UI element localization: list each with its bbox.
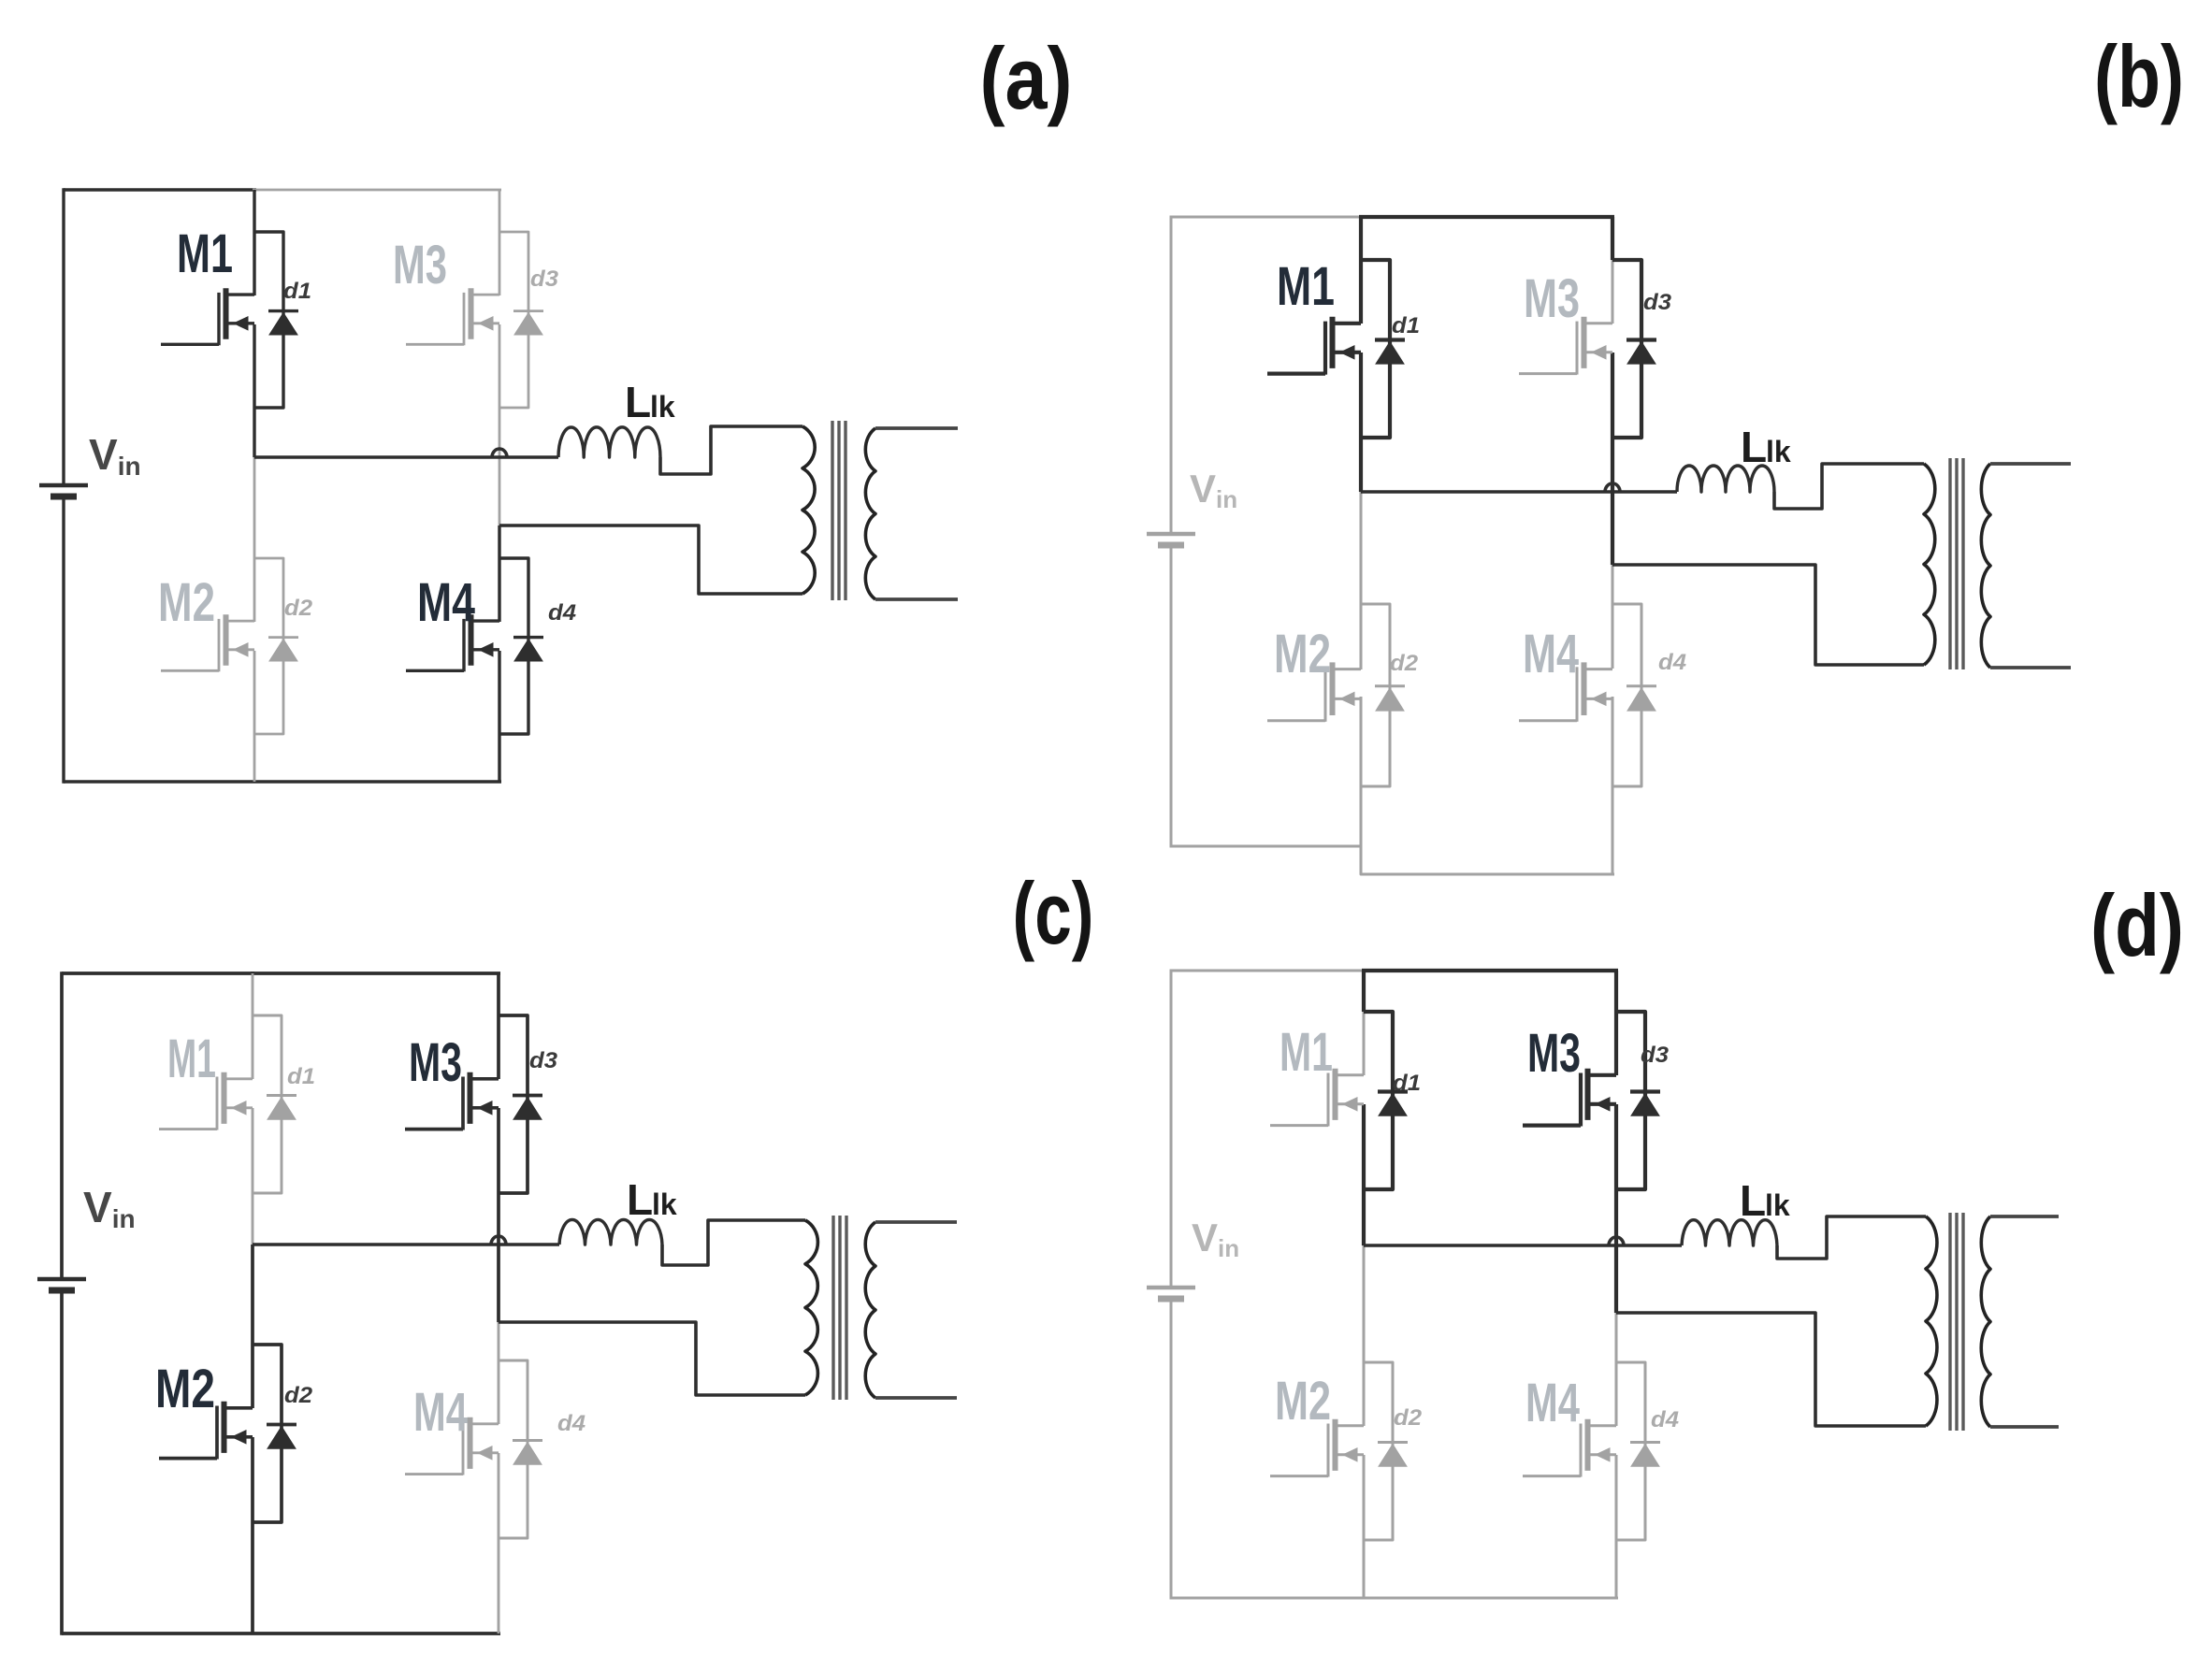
wire: bottom rail (c): [62, 1632, 500, 1635]
label d1 (c): [287, 1064, 315, 1089]
transistor M4 N-MOSFET (c): [405, 1418, 499, 1475]
label Llk (b): [1741, 423, 1791, 471]
wire: left rail / Vin net (d): [1170, 970, 1173, 1600]
diode d2 body diode of M2 (a): [268, 638, 298, 661]
diode d4 body diode of M4 (a): [513, 638, 543, 661]
label M1 (b): [1277, 256, 1335, 317]
label d3 (c): [529, 1048, 558, 1073]
wire: Llk to transformer primary top (stepped) (b): [1774, 464, 1924, 509]
wire: node B to transformer primary bottom (stepped) (a): [499, 525, 802, 594]
svg-text:d2: d2: [284, 596, 313, 621]
wire: M1 drain/source ties and diode branch (c): [253, 1015, 282, 1193]
svg-text:d2: d2: [1390, 651, 1419, 676]
wire: bridge leg B vertical (a): [499, 190, 501, 782]
svg-text:d2: d2: [284, 1383, 313, 1408]
label Vin (c): [83, 1183, 136, 1233]
diode d1 body diode of M1 (d): [1378, 1092, 1408, 1116]
label d2 (b): [1390, 651, 1419, 676]
transistor M3 N-MOSFET (d): [1523, 1069, 1616, 1127]
label d4 (a): [548, 600, 576, 626]
label d3 (a): [530, 266, 559, 292]
inductor Llk leakage inductance (d): [1682, 1220, 1777, 1245]
transistor M4 N-MOSFET (d): [1523, 1419, 1616, 1477]
wire: M1 drain/source ties and diode branch (d): [1364, 1012, 1393, 1189]
wire: top rail (d): [1171, 970, 1618, 972]
label M3 (d): [1527, 1023, 1581, 1084]
svg-text:(b): (b): [2094, 27, 2184, 125]
wire: left rail / Vin net (b): [1170, 216, 1173, 848]
wire: bridge leg A vertical (d): [1362, 971, 1366, 1598]
label M3 (b): [1524, 268, 1580, 329]
transistor M2 N-MOSFET (c): [159, 1402, 253, 1460]
svg-text:M3: M3: [393, 235, 447, 295]
svg-text:M1: M1: [167, 1029, 216, 1089]
transformer secondary winding (b): [1981, 464, 1990, 668]
label d2 (d): [1394, 1405, 1423, 1431]
diode d3 body diode of M3 (b): [1626, 340, 1656, 365]
svg-text:(c): (c): [1013, 864, 1094, 962]
wire: secondary top lead (d): [1990, 1215, 2059, 1218]
inductor Llk leakage inductance (b): [1677, 466, 1774, 492]
label Llk (d): [1740, 1176, 1790, 1225]
transistor M1 N-MOSFET (b): [1267, 317, 1361, 375]
wire: M1 drain/source ties and diode branch (a): [254, 232, 283, 408]
wire: bridge leg B vertical (c): [497, 973, 500, 1633]
svg-text:d3: d3: [1641, 1043, 1670, 1068]
battery Vin source (b): [1147, 534, 1195, 545]
label M2 (c): [155, 1359, 215, 1419]
label M1 (a): [177, 223, 233, 284]
label d3 (d): [1641, 1043, 1670, 1068]
label d4 (d): [1651, 1407, 1679, 1432]
wire: bottom rail (a): [64, 780, 501, 783]
label (a) sub-figure letter: [980, 29, 1073, 127]
diode d2 body diode of M2 (b): [1375, 686, 1405, 711]
transformer core (b): [1950, 458, 1963, 669]
wire: Llk to transformer primary top (stepped) (d): [1777, 1216, 1926, 1259]
wire: secondary bottom lead (c): [875, 1396, 957, 1400]
transistor M4 N-MOSFET (b): [1519, 662, 1612, 721]
svg-text:d4: d4: [1658, 650, 1686, 675]
battery Vin source (a): [39, 485, 88, 496]
diode d1 body diode of M1 (c): [267, 1096, 296, 1120]
label M4 (a): [417, 572, 475, 633]
svg-text:M4: M4: [417, 572, 475, 633]
battery Vin source (c): [37, 1279, 86, 1290]
label d3 (b): [1643, 290, 1672, 315]
wire: left rail / Vin net (a): [62, 188, 65, 783]
transformer primary winding (d): [1926, 1216, 1937, 1426]
svg-text:M4: M4: [413, 1382, 468, 1443]
label M1 (c): [167, 1029, 216, 1089]
label M2 (a): [158, 572, 215, 633]
diode d4 body diode of M4 (b): [1626, 686, 1656, 711]
wire: bottom rail (d): [1171, 1597, 1618, 1600]
svg-text:(d): (d): [2090, 876, 2184, 974]
label M2 (b): [1274, 624, 1331, 684]
label M3 (a): [393, 235, 447, 295]
svg-text:d2: d2: [1394, 1405, 1423, 1431]
svg-text:d3: d3: [1643, 290, 1672, 315]
wire: M4 drain/source ties and diode branch (d): [1616, 1362, 1645, 1540]
wire: M2 drain/source ties and diode branch (c): [253, 1345, 282, 1522]
wire: node A to Llk with crossover hop (b): [1361, 483, 1677, 492]
svg-text:L: L: [1740, 1176, 1766, 1225]
transformer primary winding (c): [805, 1220, 817, 1395]
svg-text:L: L: [1741, 423, 1767, 471]
svg-text:M1: M1: [1277, 256, 1335, 317]
wire: bridge leg A vertical (c): [252, 973, 254, 1633]
inductor Llk leakage inductance (c): [559, 1219, 662, 1245]
svg-text:M2: M2: [155, 1359, 215, 1419]
transistor M1 N-MOSFET (c): [159, 1072, 253, 1130]
wire: top rail (a): [64, 188, 501, 191]
transistor M3 N-MOSFET (c): [405, 1072, 499, 1130]
wire: Llk to transformer primary top (stepped) (c): [662, 1220, 805, 1265]
wire: M3 drain/source ties and diode branch (b): [1612, 260, 1641, 438]
transformer secondary winding (a): [865, 428, 875, 599]
svg-text:d4: d4: [557, 1411, 586, 1436]
wire: M1 drain/source ties and diode branch (b): [1361, 260, 1390, 438]
diode d2 body diode of M2 (c): [267, 1425, 296, 1449]
transistor M1 N-MOSFET (a): [161, 288, 254, 345]
wire: M3 drain/source ties and diode branch (a): [499, 232, 528, 408]
diode d2 body diode of M2 (d): [1378, 1443, 1408, 1467]
wire: node B to transformer primary bottom (stepped) (c): [499, 1322, 805, 1395]
svg-text:M4: M4: [1525, 1373, 1580, 1433]
wire: secondary bottom lead (a): [875, 597, 958, 601]
transformer core (c): [833, 1216, 846, 1400]
label M4 (d): [1525, 1373, 1580, 1433]
svg-text:M2: M2: [1274, 624, 1331, 684]
svg-text:d1: d1: [1393, 1071, 1421, 1096]
svg-text:M3: M3: [1524, 268, 1580, 329]
label M1 (d): [1279, 1022, 1333, 1083]
transistor M3 N-MOSFET (a): [406, 288, 499, 345]
label M4 (c): [413, 1382, 468, 1443]
svg-text:d3: d3: [529, 1048, 558, 1073]
wire: M4 drain/source ties and diode branch (c): [499, 1360, 528, 1538]
svg-text:d4: d4: [548, 600, 576, 626]
transformer core (d): [1950, 1213, 1963, 1431]
transformer core (a): [832, 421, 846, 600]
wire: secondary bottom lead (b): [1990, 666, 2071, 669]
svg-text:d1: d1: [1392, 313, 1420, 338]
wire: bridge leg A vertical (b): [1359, 217, 1363, 874]
label d4 (c): [557, 1411, 586, 1436]
wire: M2 drain/source ties and diode branch (d): [1364, 1362, 1393, 1540]
svg-text:M3: M3: [409, 1032, 462, 1093]
diode d1 body diode of M1 (a): [268, 311, 298, 335]
svg-text:M1: M1: [177, 223, 233, 284]
svg-text:d1: d1: [287, 1064, 315, 1089]
label Llk (a): [625, 378, 675, 426]
svg-text:d3: d3: [530, 266, 559, 292]
label Vin (d): [1192, 1216, 1239, 1262]
wire: node A to Llk with crossover hop (c): [253, 1236, 559, 1245]
wire: bridge leg B vertical (d): [1614, 971, 1618, 1598]
wire: M3 drain/source ties and diode branch (d): [1616, 1012, 1645, 1189]
svg-text:M3: M3: [1527, 1023, 1581, 1084]
transistor M4 N-MOSFET (a): [406, 614, 499, 671]
wire: top rail (c): [62, 971, 500, 975]
battery Vin source (d): [1147, 1288, 1195, 1299]
label M2 (d): [1275, 1371, 1331, 1432]
transformer secondary winding (d): [1981, 1216, 1990, 1427]
svg-text:M4: M4: [1523, 624, 1579, 684]
transformer primary winding (a): [802, 426, 815, 594]
wire: left rail / Vin net (c): [60, 971, 64, 1635]
diode d1 body diode of M1 (b): [1375, 340, 1405, 365]
svg-text:lk: lk: [652, 1187, 677, 1221]
svg-text:lk: lk: [1765, 1188, 1790, 1222]
transistor M2 N-MOSFET (d): [1270, 1419, 1364, 1477]
diode d3 body diode of M3 (d): [1630, 1092, 1660, 1116]
wire: bottom rail (b): [1171, 846, 1614, 874]
wire: node B to transformer primary bottom (stepped) (d): [1616, 1313, 1926, 1426]
label Vin (a): [89, 430, 141, 481]
transistor M1 N-MOSFET (d): [1270, 1069, 1364, 1127]
label M3 (c): [409, 1032, 462, 1093]
svg-text:M1: M1: [1279, 1022, 1333, 1083]
wire: secondary top lead (c): [875, 1220, 957, 1224]
wire: node B to transformer primary bottom (stepped) (b): [1612, 565, 1924, 665]
svg-text:M2: M2: [158, 572, 215, 633]
wire: secondary top lead (b): [1990, 462, 2071, 466]
svg-text:(a): (a): [980, 29, 1073, 127]
svg-text:lk: lk: [1766, 435, 1791, 468]
label Llk (c): [627, 1175, 677, 1224]
wire: M2 drain/source ties and diode branch (a): [254, 558, 283, 734]
label (b) sub-figure letter: [2094, 27, 2184, 125]
svg-text:d1: d1: [283, 279, 311, 304]
diode d4 body diode of M4 (d): [1630, 1443, 1660, 1467]
transistor M2 N-MOSFET (b): [1267, 662, 1361, 721]
diode d3 body diode of M3 (a): [513, 311, 543, 335]
wire: bridge leg A vertical (a): [253, 190, 255, 782]
svg-text:L: L: [627, 1175, 653, 1224]
label (c) sub-figure letter: [1013, 864, 1094, 962]
transistor M3 N-MOSFET (b): [1519, 317, 1612, 375]
wire: node A to Llk with crossover hop (a): [254, 449, 558, 457]
wire: M2 drain/source ties and diode branch (b): [1361, 604, 1390, 786]
transistor M2 N-MOSFET (a): [161, 614, 254, 671]
label d1 (a): [283, 279, 311, 304]
svg-text:lk: lk: [650, 390, 675, 424]
wire: Llk to transformer primary top (stepped) (a): [660, 426, 802, 474]
label d2 (c): [284, 1383, 313, 1408]
wire: node A to Llk with crossover hop (d): [1364, 1237, 1682, 1245]
wire: top rail (b): [1171, 216, 1614, 219]
wire: M3 drain/source ties and diode branch (c): [499, 1015, 528, 1193]
transformer secondary winding (c): [865, 1222, 875, 1398]
label d1 (b): [1392, 313, 1420, 338]
wire: bridge leg B vertical (b): [1611, 217, 1614, 874]
diode d3 body diode of M3 (c): [513, 1096, 542, 1120]
svg-text:d4: d4: [1651, 1407, 1679, 1432]
label d4 (b): [1658, 650, 1686, 675]
wire: M4 drain/source ties and diode branch (b): [1612, 604, 1641, 786]
wire: secondary bottom lead (d): [1990, 1425, 2059, 1429]
inductor Llk leakage inductance (a): [558, 427, 660, 457]
svg-text:M2: M2: [1275, 1371, 1331, 1432]
label Vin (b): [1190, 467, 1237, 513]
label d2 (a): [284, 596, 313, 621]
label (d) sub-figure letter: [2090, 876, 2184, 974]
svg-text:L: L: [625, 378, 651, 426]
label M4 (b): [1523, 624, 1579, 684]
wire: M4 drain/source ties and diode branch (a): [499, 558, 528, 734]
wire: secondary top lead (a): [875, 426, 958, 430]
label d1 (d): [1393, 1071, 1421, 1096]
diode d4 body diode of M4 (c): [513, 1441, 542, 1465]
transformer primary winding (b): [1924, 464, 1935, 665]
